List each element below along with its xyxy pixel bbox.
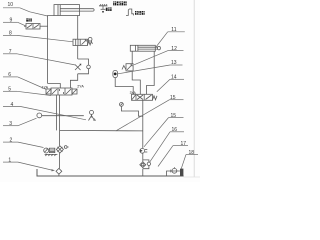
- svg-text:5: 5: [8, 87, 11, 93]
- leader lines: [3, 8, 198, 172]
- svg-text:13: 13: [171, 60, 177, 66]
- wire valve9 to vertical: [40, 25, 48, 27]
- wire capsule to valve14 pilot: [115, 78, 133, 95]
- wire below throttle 7 to jog: [70, 74, 77, 88]
- valve 9 (manual valve top-left): [24, 24, 40, 30]
- muffler 3: [37, 113, 42, 118]
- wire gauge tail: [121, 106, 142, 116]
- wire below valve12 jog to valve14: [132, 71, 140, 94]
- svg-text:2YA: 2YA: [77, 85, 84, 89]
- leader 17: [158, 146, 188, 167]
- wire cylinder10 right port down: [77, 16, 79, 40]
- leader 1: [3, 162, 55, 171]
- wire cylinder10 left port: [48, 16, 54, 84]
- workpiece text: [106, 7, 112, 11]
- svg-text:9: 9: [10, 18, 13, 24]
- svg-text:10: 10: [8, 2, 14, 8]
- leader 13: [118, 65, 183, 74]
- svg-text:17: 17: [181, 141, 187, 147]
- throttle check valve 7: [75, 59, 90, 74]
- valve 12 (throttle with spring): [122, 64, 133, 71]
- leader 4: [3, 107, 86, 120]
- svg-text:8: 8: [9, 31, 12, 37]
- leader 14: [157, 79, 184, 92]
- svg-text:4: 4: [11, 102, 14, 108]
- svg-text:1: 1: [8, 157, 11, 163]
- tank line: [37, 169, 184, 176]
- svg-text:16: 16: [172, 127, 178, 133]
- svg-text:3: 3: [9, 121, 12, 127]
- wire cyl11 left port: [131, 51, 133, 64]
- check valve 15: [140, 148, 147, 153]
- leader 15b: [144, 118, 184, 147]
- FRL unit 2: [44, 146, 69, 156]
- filter 16 with bypass: [140, 160, 151, 169]
- number labels: [8, 2, 195, 163]
- svg-text:11: 11: [171, 27, 176, 33]
- leader 9: [3, 22, 26, 26]
- svg-text:3YA: 3YA: [130, 91, 137, 95]
- leader 7: [3, 54, 76, 65]
- valve 8 (roller valve): [73, 39, 92, 45]
- filter 1 (diamond): [56, 168, 62, 174]
- cylinder 11 body: [130, 45, 155, 51]
- leader 18: [181, 155, 198, 169]
- svg-text:14: 14: [171, 75, 177, 81]
- svg-text:6: 6: [8, 72, 11, 78]
- pilot capsule 13: [113, 70, 118, 77]
- leader 5: [3, 91, 51, 95]
- wire main supply vertical: [142, 100, 144, 148]
- valve 14 (solenoid valve): [132, 94, 158, 100]
- leader 10: [3, 8, 48, 16]
- leader 8: [3, 35, 73, 41]
- svg-text:15: 15: [171, 113, 177, 119]
- svg-text:18: 18: [189, 150, 195, 156]
- wire filter to tank line: [142, 169, 144, 176]
- clamp block symbol: [126, 9, 133, 15]
- wire cyl11 right port: [147, 51, 155, 94]
- clamp text: [135, 11, 145, 15]
- wire below valve 8: [77, 46, 79, 60]
- valve 8 roller: [88, 37, 92, 41]
- wire supply pipe to right: [60, 129, 143, 132]
- wire FRL bottom to filter1: [59, 153, 61, 169]
- leader 2: [3, 142, 44, 147]
- leader 12: [134, 51, 184, 65]
- pump 18: [167, 167, 184, 176]
- cylinder 11 rod: [138, 46, 161, 50]
- wire muffler to shuttle: [42, 115, 84, 117]
- wire diamond to tank line: [58, 174, 60, 176]
- svg-text:2: 2: [10, 137, 13, 143]
- svg-text:12: 12: [171, 46, 177, 52]
- wire below check valve: [142, 153, 144, 162]
- leader 11: [156, 32, 185, 47]
- cylinder 10 body: [54, 5, 80, 16]
- frame right edge: [193, 0, 195, 177]
- wire FRL top to supply pipe: [59, 130, 61, 146]
- wire valve bottom ports: [56, 95, 58, 130]
- cylinder 10 piston rod: [60, 9, 94, 11]
- valve 9 actuator text: [26, 18, 32, 21]
- directional valve 5/6 (3-position, double solenoid): [46, 88, 77, 95]
- leader 15a: [116, 100, 184, 131]
- workpiece stop symbol: [99, 4, 108, 13]
- wire jog to valve left top port: [48, 84, 61, 89]
- svg-text:15: 15: [170, 95, 176, 101]
- leader 16: [150, 132, 184, 162]
- leader 6: [3, 77, 47, 90]
- pressure gauge: [120, 103, 124, 107]
- annotation text top: [113, 1, 126, 5]
- leader 3: [3, 118, 37, 126]
- shuttle exhaust 4: [89, 110, 97, 122]
- svg-text:7: 7: [9, 49, 12, 55]
